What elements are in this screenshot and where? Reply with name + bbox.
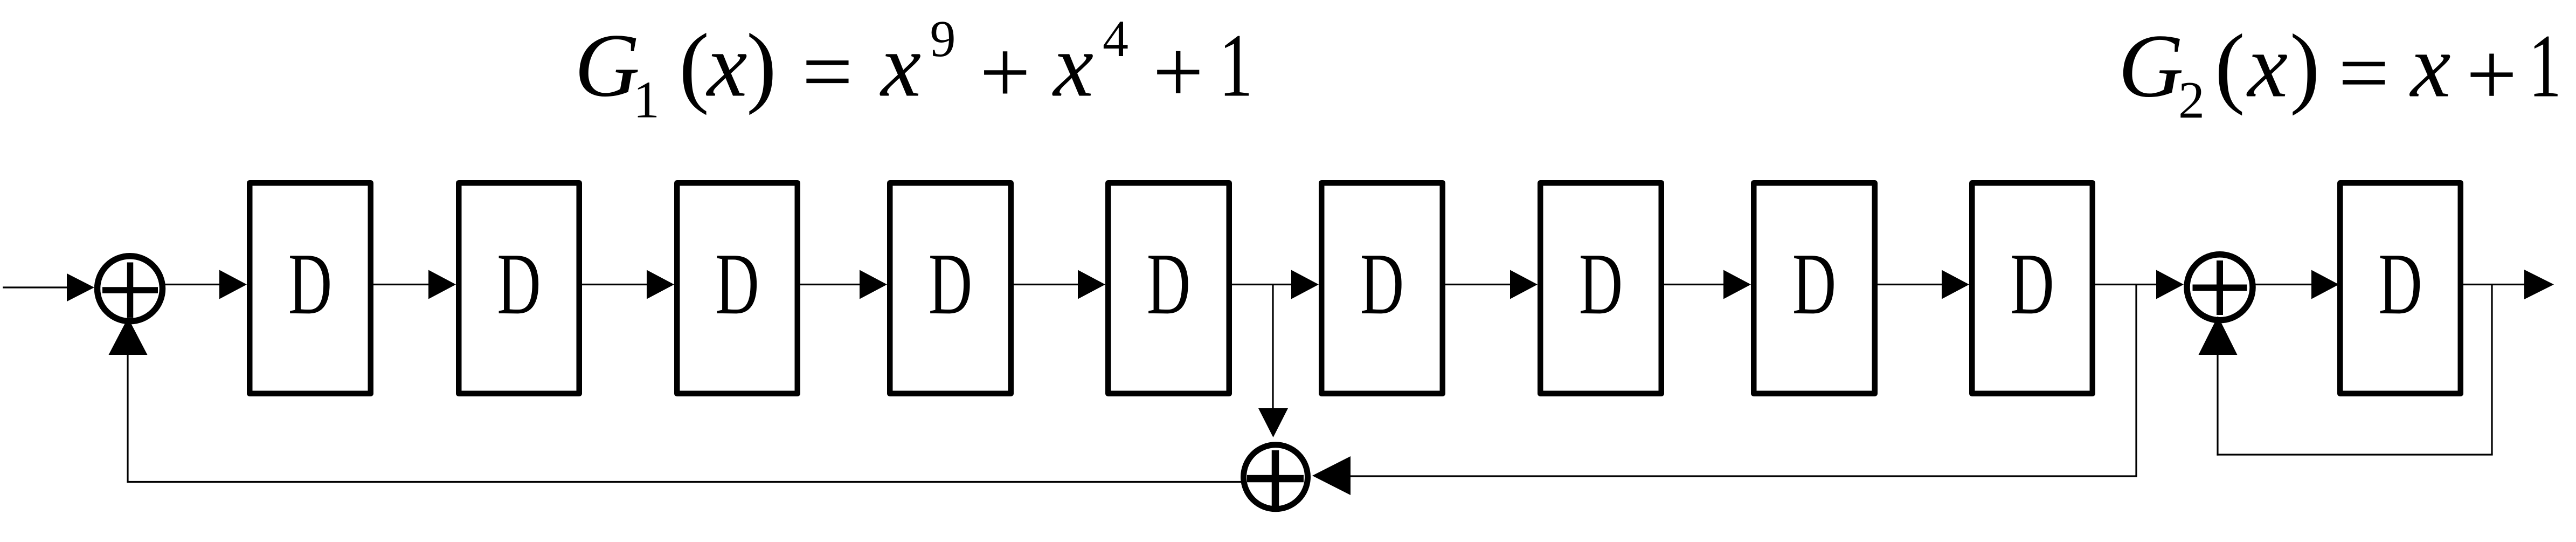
- svg-text:2: 2: [2178, 71, 2205, 129]
- svg-text:=: =: [802, 22, 853, 122]
- svg-text:+: +: [980, 22, 1031, 122]
- XOR adder A3: [1244, 445, 1308, 509]
- svg-text:D: D: [715, 236, 759, 333]
- down arrow into adder A3: [1258, 408, 1288, 437]
- wire D2 to D3: [582, 270, 674, 299]
- node tap after D5 (x^4 term): [1272, 285, 1273, 409]
- flip-flop D8: [1754, 183, 1875, 394]
- svg-text:1: 1: [2529, 16, 2561, 116]
- flip-flop D2: [459, 183, 579, 394]
- svg-text:(: (: [679, 16, 709, 116]
- svg-text:D: D: [1792, 236, 1836, 333]
- svg-text:D: D: [1579, 236, 1623, 333]
- feedback wire from D9 tap to adder A3: [1350, 475, 2137, 477]
- svg-text:=: =: [2338, 23, 2390, 123]
- svg-text:x: x: [2409, 16, 2451, 116]
- svg-text:D: D: [2378, 236, 2422, 333]
- wire D5 to D6: [1232, 270, 1319, 299]
- XOR adder A2: [2187, 255, 2253, 320]
- wire D4 to D5: [1014, 270, 1105, 299]
- flip-flop D5: [1108, 183, 1229, 394]
- svg-text:D: D: [1360, 236, 1404, 333]
- flip-flop D6: [1321, 183, 1443, 394]
- G2 feedback bottom wire: [2217, 454, 2492, 455]
- node tap after D9 (feedback): [2135, 285, 2137, 477]
- wire D6 to D7: [1445, 270, 1538, 299]
- svg-text:x: x: [880, 16, 922, 116]
- svg-text:): ): [746, 16, 777, 116]
- svg-text:D: D: [497, 236, 541, 333]
- svg-text:9: 9: [930, 10, 956, 67]
- feedback wire A3 to A1: left rise: [127, 351, 128, 483]
- input wire: [3, 273, 94, 301]
- wire D8 to D9: [1878, 270, 1969, 299]
- wire D9 to adder A2: [2095, 270, 2184, 299]
- G2 feedback rising wire: [2217, 351, 2218, 456]
- svg-text:D: D: [288, 236, 332, 333]
- wire D3 to D4: [800, 270, 887, 299]
- svg-text:D: D: [2010, 236, 2054, 333]
- svg-text:x: x: [705, 16, 747, 116]
- wire D1 to D2: [373, 270, 456, 299]
- node tap G2 feedback: [2491, 285, 2492, 455]
- svg-text:G: G: [574, 16, 640, 116]
- up arrow into adder A1: [109, 318, 148, 355]
- svg-text:+: +: [2466, 24, 2517, 125]
- svg-text:D: D: [1147, 236, 1190, 333]
- up arrow into adder A2: [2199, 316, 2238, 355]
- svg-text:1: 1: [633, 71, 660, 129]
- svg-text:(: (: [2215, 16, 2245, 116]
- wire D7 to D8: [1664, 270, 1751, 299]
- flip-flop D9: [1972, 183, 2093, 394]
- svg-text:x: x: [1052, 16, 1094, 116]
- label G2 polynomial G2(x) = x + 1: [2118, 16, 2562, 129]
- svg-text:+: +: [1153, 22, 1204, 122]
- flip-flop D4: [890, 183, 1011, 394]
- svg-text:D: D: [929, 236, 972, 333]
- wire A2 to D10: [2253, 270, 2339, 299]
- svg-text:4: 4: [1103, 10, 1128, 67]
- wire A1 to D1: [161, 270, 247, 299]
- output wire: [2463, 270, 2554, 299]
- XOR adder A1: [98, 256, 163, 321]
- feedback wire A3 to A1: bottom run: [127, 481, 1243, 483]
- svg-text:): ): [2290, 16, 2320, 116]
- svg-text:G: G: [2118, 16, 2184, 116]
- flip-flop D10: [2340, 183, 2461, 394]
- flip-flop D3: [677, 183, 798, 394]
- svg-text:x: x: [2246, 16, 2288, 116]
- svg-text:1: 1: [1219, 16, 1253, 116]
- flip-flop D7: [1540, 183, 1661, 394]
- flip-flop D1: [250, 183, 371, 394]
- label G1 polynomial G1(x) = x^9 + x^4 + 1: [574, 10, 1253, 129]
- left arrow into adder A3: [1312, 456, 1351, 495]
